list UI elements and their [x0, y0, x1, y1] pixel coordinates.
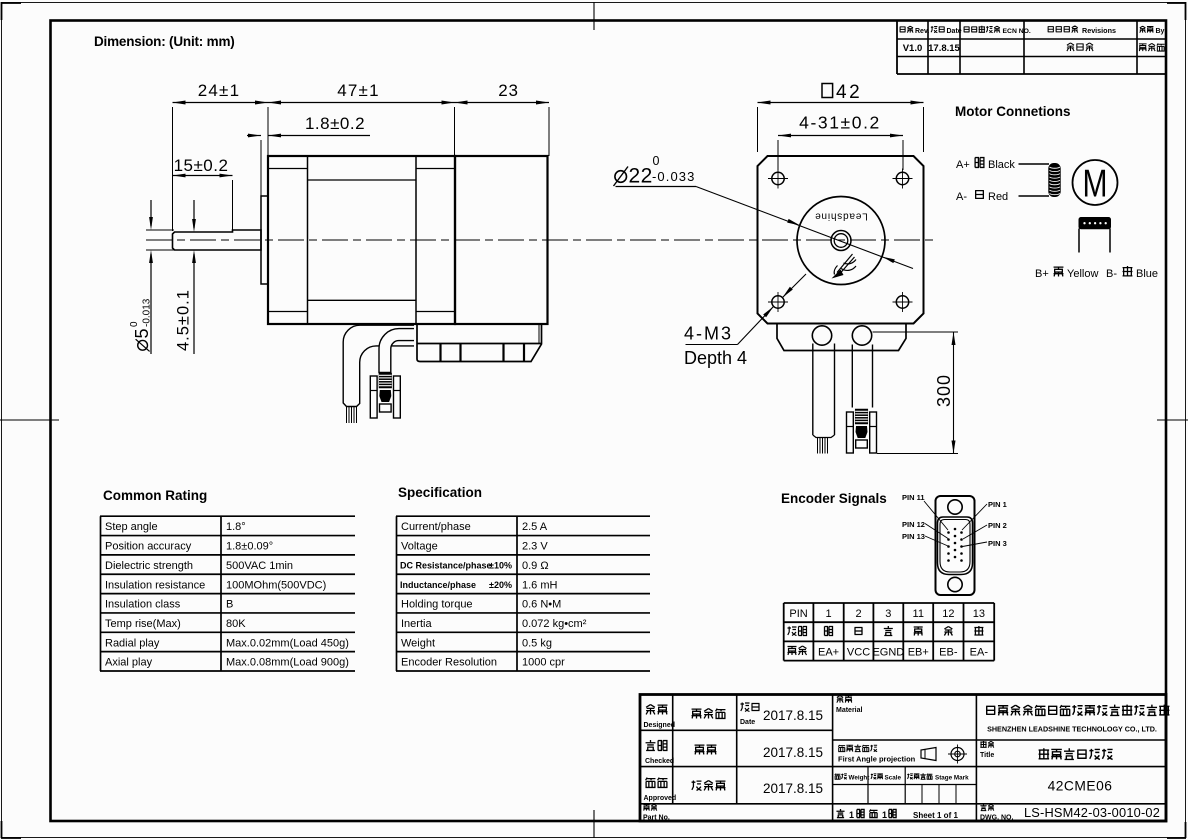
svg-text:Blue: Blue	[1136, 268, 1158, 280]
dim Φ22 0/-0.033 leader	[615, 171, 627, 183]
Leadshine logo bird	[834, 254, 856, 275]
svg-text:By: By	[1156, 28, 1165, 35]
svg-text:Current/phase: Current/phase	[401, 521, 471, 533]
front cable left	[812, 344, 814, 436]
pin color row	[788, 627, 797, 636]
svg-text:0: 0	[653, 154, 660, 168]
svg-text:Title: Title	[980, 752, 994, 759]
connector teeth	[439, 344, 441, 362]
crimp connector shell right	[870, 412, 877, 453]
coil A leads	[1019, 163, 1050, 165]
svg-text:Common Rating: Common Rating	[103, 488, 207, 503]
rear end cap divider	[415, 156, 417, 324]
svg-text:Rev.: Rev.	[915, 28, 929, 35]
svg-text:PIN 12: PIN 12	[902, 520, 925, 529]
svg-text:PIN 1: PIN 1	[988, 500, 1007, 509]
shaft side view	[173, 230, 262, 250]
side view bottom connector block	[417, 324, 542, 362]
svg-text:500VAC 1min: 500VAC 1min	[226, 560, 293, 572]
svg-text:Encoder Signals: Encoder Signals	[781, 491, 887, 506]
svg-text:Inertia: Inertia	[401, 618, 432, 630]
crimp connector shell right	[394, 376, 401, 418]
svg-text:11: 11	[913, 608, 924, 620]
svg-text:EB+: EB+	[908, 647, 929, 659]
svg-text:Red: Red	[988, 191, 1008, 203]
dwg no cell	[980, 804, 986, 811]
svg-text:Leadshine: Leadshine	[814, 211, 867, 222]
svg-text:1.8°: 1.8°	[226, 521, 246, 533]
cable B side view	[379, 329, 414, 373]
svg-text:M: M	[1083, 163, 1108, 206]
svg-text:Sheet 1 of 1: Sheet 1 of 1	[913, 811, 958, 820]
mounting holes	[772, 172, 784, 184]
svg-text:EGND: EGND	[872, 647, 904, 659]
common rating table	[100, 515, 355, 517]
svg-text:Date: Date	[947, 28, 962, 35]
svg-text:Step angle: Step angle	[105, 521, 158, 533]
svg-text:2: 2	[855, 608, 861, 620]
svg-text:Weight: Weight	[401, 637, 435, 649]
svg-text:42CME06: 42CME06	[1048, 779, 1113, 794]
stack inner lines	[308, 179, 417, 181]
pilot boss circle	[797, 197, 885, 285]
svg-text:V1.0: V1.0	[903, 43, 923, 54]
svg-text:Insulation class: Insulation class	[105, 599, 181, 611]
svg-text:0.6 N•M: 0.6 N•M	[522, 599, 561, 611]
svg-text:2017.8.15: 2017.8.15	[763, 708, 823, 723]
svg-text:Radial play: Radial play	[105, 637, 160, 649]
svg-text:PIN 2: PIN 2	[988, 521, 1007, 530]
projection symbol trapezoid	[921, 748, 936, 761]
motor front view body	[758, 156, 924, 324]
sheet row	[836, 809, 844, 818]
checked cell	[646, 740, 656, 750]
svg-text:B: B	[226, 599, 233, 611]
cable A wire strands	[346, 407, 348, 424]
svg-text:12: 12	[942, 608, 954, 620]
approved cell	[646, 778, 656, 788]
svg-text:B+: B+	[1035, 268, 1049, 280]
projection symbol target	[951, 748, 964, 761]
svg-text:Weight: Weight	[849, 775, 871, 782]
svg-text:0.072 kg•cm²: 0.072 kg•cm²	[522, 618, 587, 630]
svg-text:100MOhm(500VDC): 100MOhm(500VDC)	[226, 579, 326, 591]
crimp connector shell left	[370, 376, 377, 418]
svg-text:EA+: EA+	[818, 647, 839, 659]
coil A (vertical)	[1049, 164, 1060, 197]
front cable right	[851, 345, 853, 408]
svg-text:17.8.15: 17.8.15	[928, 43, 960, 54]
svg-text:Black: Black	[988, 159, 1015, 171]
svg-text:VCC: VCC	[847, 647, 870, 659]
svg-text:0.5 kg: 0.5 kg	[522, 637, 552, 649]
svg-text:PIN: PIN	[789, 608, 807, 620]
svg-text:Holding torque: Holding torque	[401, 599, 473, 611]
svg-text:B-: B-	[1106, 268, 1117, 280]
svg-text:Checked: Checked	[645, 758, 674, 765]
svg-text:24±1: 24±1	[198, 81, 241, 100]
svg-text:2.5 A: 2.5 A	[522, 521, 548, 533]
svg-text:Scale: Scale	[885, 775, 902, 782]
designed cell	[646, 705, 655, 715]
svg-text:1000 cpr: 1000 cpr	[522, 657, 565, 669]
motor body side view	[268, 156, 455, 324]
revision table	[896, 21, 898, 74]
revision header row	[900, 27, 906, 32]
svg-text:±10%: ±10%	[489, 560, 512, 570]
svg-text:PIN 11: PIN 11	[902, 493, 925, 502]
svg-text:Part No.: Part No.	[643, 815, 670, 822]
title block frame	[640, 695, 1166, 822]
svg-text:Dimension: (Unit: mm): Dimension: (Unit: mm)	[94, 34, 235, 49]
dim 4.5±0.1	[193, 200, 195, 228]
company name	[986, 706, 995, 714]
svg-text:2.3 V: 2.3 V	[522, 541, 548, 553]
svg-text:Designed: Designed	[644, 722, 676, 729]
corner trim marks	[1, 2, 21, 4]
svg-text:DC Resistance/phase: DC Resistance/phase	[400, 560, 492, 570]
specification table	[396, 515, 650, 517]
end cap inner lines	[268, 168, 308, 170]
svg-text:Position accuracy: Position accuracy	[105, 541, 192, 553]
centering marks	[0, 419, 59, 421]
DB connector outer	[936, 496, 975, 595]
svg-text:A-: A-	[956, 191, 967, 203]
svg-text:1: 1	[849, 810, 854, 820]
cable grommets	[812, 326, 831, 345]
svg-text:DWG. NO.: DWG. NO.	[980, 815, 1013, 822]
svg-text:1.8±0.2: 1.8±0.2	[305, 114, 365, 133]
front cable housing	[777, 324, 906, 351]
svg-text:4.5±0.1: 4.5±0.1	[175, 289, 193, 351]
encoder pin table	[784, 602, 995, 604]
svg-text:ECN NO.: ECN NO.	[1003, 28, 1031, 35]
svg-text:Max.0.02mm(Load 450g): Max.0.02mm(Load 450g)	[226, 637, 349, 649]
title cell	[980, 741, 986, 747]
DB pins	[947, 531, 950, 534]
dim square42	[822, 84, 833, 98]
svg-text:EB-: EB-	[939, 647, 958, 659]
svg-text:1: 1	[882, 810, 887, 820]
material cell	[837, 695, 843, 702]
svg-text:Date: Date	[740, 719, 755, 726]
weight scale stage header	[835, 774, 841, 780]
svg-text:Motor Connetions: Motor Connetions	[955, 104, 1070, 119]
svg-text:0: 0	[129, 321, 140, 327]
svg-text:15±0.2: 15±0.2	[174, 156, 229, 175]
crimp connector shell left	[847, 412, 854, 453]
svg-text:Axial play: Axial play	[105, 657, 153, 669]
crimp black body	[856, 426, 868, 438]
svg-text:2017.8.15: 2017.8.15	[763, 781, 823, 796]
svg-text:SHENZHEN LEADSHINE TECHNOLOGY: SHENZHEN LEADSHINE TECHNOLOGY CO., LTD.	[987, 725, 1157, 734]
pilot boss side view	[261, 196, 268, 284]
svg-text:Material: Material	[836, 707, 863, 714]
svg-text:Voltage: Voltage	[401, 541, 438, 553]
svg-text:EA-: EA-	[970, 647, 989, 659]
dim Φ5 0/-0.013	[146, 229, 174, 231]
svg-text:Inductance/phase: Inductance/phase	[400, 580, 476, 590]
first angle projection cell	[838, 745, 845, 752]
cable A side view (frayed)	[343, 325, 414, 406]
svg-text:80K: 80K	[226, 618, 246, 630]
svg-text:0.9 Ω: 0.9 Ω	[522, 560, 549, 572]
svg-text:3: 3	[885, 608, 891, 620]
svg-text:A+: A+	[956, 159, 970, 171]
svg-text:2017.8.15: 2017.8.15	[763, 745, 823, 760]
svg-text:1.8±0.09°: 1.8±0.09°	[226, 541, 273, 553]
front end cap divider	[307, 156, 309, 324]
crimp black body	[379, 390, 391, 402]
svg-text:Yellow: Yellow	[1067, 268, 1098, 280]
centerline axis	[146, 239, 934, 241]
svg-text:22: 22	[629, 165, 653, 188]
svg-text:4-31±0.2: 4-31±0.2	[799, 113, 881, 133]
svg-text:Insulation resistance: Insulation resistance	[105, 579, 205, 591]
svg-text:23: 23	[498, 81, 519, 100]
svg-text:5: 5	[132, 328, 152, 338]
rear encoder housing	[455, 156, 548, 324]
svg-text:Depth 4: Depth 4	[684, 348, 747, 368]
svg-text:Max.0.08mm(Load 900g): Max.0.08mm(Load 900g)	[226, 657, 349, 669]
crimp window	[856, 440, 868, 448]
svg-text:47±1: 47±1	[337, 81, 380, 100]
svg-text:Encoder Resolution: Encoder Resolution	[401, 657, 497, 669]
part no cell	[643, 805, 649, 811]
svg-text:±20%: ±20%	[489, 580, 512, 590]
svg-text:Stage Mark: Stage Mark	[935, 775, 969, 782]
svg-text:First Angle projection: First Angle projection	[838, 755, 916, 764]
motor symbol M	[1073, 160, 1118, 205]
svg-text:1: 1	[825, 608, 831, 620]
svg-text:13: 13	[973, 608, 985, 620]
svg-text:-0.013: -0.013	[142, 298, 153, 327]
svg-text:PIN 13: PIN 13	[902, 532, 925, 541]
svg-text:Temp rise(Max): Temp rise(Max)	[105, 618, 181, 630]
coil B (horizontal)	[1079, 218, 1111, 229]
svg-text:4-M3: 4-M3	[684, 324, 733, 344]
shaft bore circles	[831, 231, 851, 251]
svg-text:42: 42	[836, 82, 862, 103]
crimp window	[380, 404, 392, 412]
crimp ferrite striped block	[855, 409, 868, 424]
svg-text:Revisions: Revisions	[1082, 26, 1116, 35]
DB mounting holes	[948, 500, 962, 514]
Leadshine arc text (upside down)	[814, 211, 867, 222]
svg-text:Dielectric strength: Dielectric strength	[105, 560, 193, 572]
svg-text:-0.033: -0.033	[652, 169, 695, 184]
coil B leads	[1078, 229, 1080, 253]
pin define row	[788, 647, 797, 656]
crimp ferrite striped block	[379, 373, 392, 388]
dim 300	[873, 331, 959, 333]
svg-text:Specification: Specification	[398, 485, 482, 500]
svg-text:300: 300	[934, 374, 954, 407]
svg-text:LS-HSM42-03-0010-02: LS-HSM42-03-0010-02	[1024, 805, 1160, 820]
DB shell	[938, 517, 973, 575]
svg-text:1.6 mH: 1.6 mH	[522, 579, 558, 591]
svg-text:PIN 3: PIN 3	[988, 539, 1007, 548]
svg-text:Approved: Approved	[644, 795, 677, 802]
